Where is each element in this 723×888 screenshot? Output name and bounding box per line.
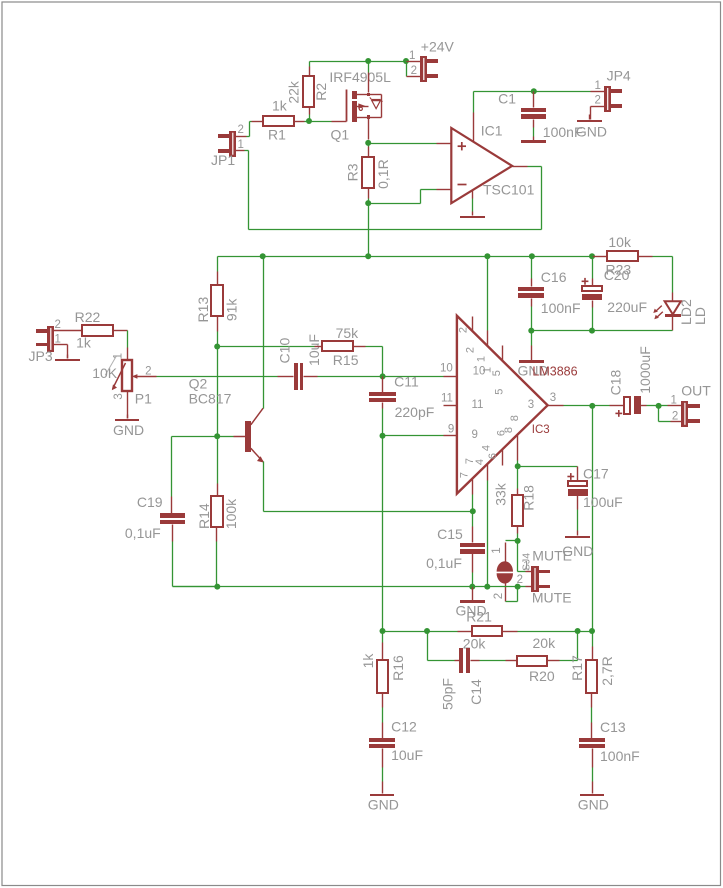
wire (310, 61, 407, 63)
svg-text:GND: GND (113, 422, 144, 438)
capacitor C18 (608, 346, 654, 417)
svg-text:2: 2 (493, 593, 505, 599)
svg-text:10uF: 10uF (306, 334, 322, 366)
op-amp IC1 (451, 123, 534, 204)
wire Q1 source (368, 119, 370, 140)
svg-text:C12: C12 (391, 719, 417, 735)
svg-text:R18: R18 (521, 485, 537, 511)
wire bottom rail (383, 631, 458, 633)
resistor R2 (286, 76, 329, 107)
node (365, 253, 371, 259)
connector MUTE (517, 547, 572, 605)
node (484, 253, 490, 259)
svg-text:5: 5 (494, 389, 506, 395)
node (528, 328, 534, 334)
resistor R23 (593, 234, 639, 278)
wire (591, 91, 605, 93)
svg-text:C10: C10 (276, 338, 292, 364)
svg-text:1000uF: 1000uF (637, 346, 653, 393)
svg-text:10K: 10K (92, 365, 118, 381)
svg-text:R16: R16 (390, 655, 406, 681)
svg-text:C13: C13 (600, 719, 626, 735)
node (589, 403, 595, 409)
wire (382, 693, 384, 739)
svg-text:2: 2 (55, 319, 61, 331)
svg-text:5: 5 (491, 370, 503, 376)
wire (309, 107, 311, 122)
svg-text:R13: R13 (195, 297, 211, 323)
svg-text:8: 8 (503, 427, 515, 433)
wire (368, 204, 370, 257)
wire (592, 749, 594, 782)
svg-text:50pF: 50pF (440, 678, 456, 710)
svg-text:100nF: 100nF (600, 748, 640, 764)
pin 2 stub (458, 317, 477, 354)
node (424, 628, 430, 634)
node (589, 628, 595, 634)
svg-text:1: 1 (475, 356, 487, 362)
wire (294, 121, 310, 123)
svg-text:2: 2 (458, 327, 470, 333)
node (260, 253, 266, 259)
pin 8 (503, 415, 521, 460)
wire (593, 405, 610, 407)
ground C1 (521, 137, 546, 144)
wire (533, 120, 535, 137)
wire wiper (157, 376, 278, 378)
wire (639, 257, 673, 293)
node (589, 328, 595, 334)
node R14 bottom (214, 584, 220, 590)
svg-text:R14: R14 (196, 503, 212, 529)
ground (456, 587, 487, 619)
wire JP4 pin2 (591, 107, 605, 120)
svg-text:3: 3 (550, 392, 556, 404)
wire JP3 pin1 (54, 345, 68, 359)
wire (506, 587, 518, 602)
svg-text:LD: LD (692, 307, 708, 325)
svg-text:3: 3 (528, 399, 534, 411)
wire (217, 437, 219, 497)
svg-text:R2: R2 (313, 83, 329, 101)
wire (471, 660, 506, 662)
wire out (564, 405, 593, 407)
wire IC1 out (513, 166, 528, 168)
wire (533, 92, 535, 108)
wire (659, 405, 682, 407)
svg-text:100uF: 100uF (583, 494, 623, 510)
wire (472, 512, 474, 543)
svg-text:C16: C16 (541, 269, 567, 285)
wire (382, 403, 384, 436)
wire to IC1 -in (369, 190, 452, 204)
wire (407, 61, 421, 63)
wire (368, 188, 370, 204)
svg-text:11: 11 (441, 392, 453, 404)
capacitor C16 (518, 269, 581, 316)
svg-text:JP3: JP3 (29, 348, 53, 364)
svg-text:C15: C15 (437, 526, 463, 542)
wire (503, 631, 593, 633)
svg-text:220uF: 220uF (607, 299, 647, 315)
pin 3 (528, 392, 564, 411)
capacitor C10 (276, 334, 322, 390)
ground C12 (368, 782, 399, 813)
node (380, 628, 386, 634)
svg-text:75k: 75k (336, 325, 360, 341)
svg-text:2: 2 (465, 347, 477, 353)
node (515, 584, 521, 590)
ground JP3 (55, 355, 80, 362)
svg-text:C11: C11 (394, 374, 419, 390)
pin 4 (474, 445, 493, 481)
svg-text:1: 1 (491, 547, 503, 553)
ground C13 (578, 782, 609, 813)
wire (672, 317, 674, 331)
svg-text:9: 9 (448, 423, 454, 435)
svg-text:MUTE: MUTE (532, 547, 572, 563)
ground P1 (113, 415, 144, 438)
svg-text:MUTE: MUTE (532, 589, 572, 605)
resistor R18 (493, 482, 537, 526)
wire (173, 525, 218, 587)
svg-text:1: 1 (409, 50, 415, 62)
wire (528, 166, 542, 168)
transistor Q2 (189, 376, 264, 463)
capacitor C1 (498, 91, 582, 141)
svg-text:2: 2 (594, 95, 600, 107)
svg-text:P1: P1 (135, 391, 152, 407)
wire main rail (218, 256, 593, 258)
svg-text:C17: C17 (583, 466, 609, 482)
node C15 bottom (469, 584, 475, 590)
resistor R3 (345, 157, 391, 189)
wire (577, 496, 579, 531)
wire to Q1 gate (310, 121, 347, 123)
wire (532, 330, 673, 332)
wire (592, 301, 594, 331)
node (589, 253, 595, 259)
pin 11 (441, 392, 483, 411)
wire OUT pin2 (659, 406, 682, 422)
svg-text:R21: R21 (466, 609, 492, 625)
wire (592, 257, 594, 286)
pin 1 (475, 331, 493, 374)
svg-text:C19: C19 (137, 494, 163, 510)
svg-text:BC817: BC817 (189, 390, 232, 406)
wire Q1 drain (368, 62, 370, 93)
svg-text:JP1: JP1 (211, 152, 235, 168)
node (380, 373, 386, 379)
wire (541, 167, 543, 230)
capacitor C19 (125, 494, 185, 541)
svg-text:0,1uF: 0,1uF (125, 525, 161, 541)
svg-text:C14: C14 (468, 679, 484, 705)
resistor R15 (315, 325, 360, 368)
resistor R16 (360, 653, 406, 693)
wire (309, 62, 311, 76)
svg-text:4: 4 (481, 445, 493, 451)
node R1 R2 gate (306, 118, 312, 124)
wire pin7 (472, 495, 474, 512)
svg-text:IC1: IC1 (481, 123, 503, 139)
svg-text:3: 3 (113, 393, 125, 399)
wire (217, 317, 219, 347)
wire (518, 586, 532, 588)
resistor R20 (506, 635, 557, 684)
svg-text:R3: R3 (345, 163, 361, 181)
wire (518, 467, 578, 481)
svg-text:9: 9 (472, 429, 478, 441)
resistor R13 (195, 285, 239, 322)
wire Q2 emitter (263, 462, 265, 512)
wire gnd net (173, 586, 518, 588)
svg-text:10k: 10k (608, 234, 632, 250)
capacitor C15 (426, 526, 485, 571)
wire (531, 257, 533, 287)
resistor R22 (54, 309, 114, 351)
resistor R14 (196, 496, 239, 529)
pin 6 stub (487, 430, 508, 466)
capacitor C17 (567, 466, 622, 510)
wire (113, 331, 128, 361)
wire (641, 405, 659, 407)
svg-text:+24V: +24V (421, 39, 455, 55)
wire (127, 392, 129, 419)
node R3 bottom (365, 200, 371, 206)
svg-text:100nF: 100nF (541, 300, 581, 316)
wire (474, 91, 534, 93)
node (529, 253, 535, 259)
wire (531, 299, 533, 331)
wire (534, 91, 591, 93)
wire (264, 511, 473, 513)
wire (172, 437, 218, 514)
wire to R15 (218, 346, 315, 348)
wire (249, 229, 542, 231)
svg-text:0,1uF: 0,1uF (426, 555, 462, 571)
svg-text:22k: 22k (286, 80, 302, 104)
svg-text:C20: C20 (604, 267, 630, 283)
solder jumper SJ4 (491, 547, 533, 601)
svg-text:1k: 1k (76, 334, 92, 350)
wire (428, 632, 460, 661)
ground IC1 (460, 191, 485, 219)
wire Q2 base (218, 436, 234, 438)
svg-text:R15: R15 (333, 352, 359, 368)
svg-text:10uF: 10uF (391, 747, 423, 763)
node (656, 403, 662, 409)
connector OUT (670, 382, 711, 427)
node at +24V branch (403, 58, 409, 64)
svg-text:220pF: 220pF (395, 404, 435, 420)
node C1 top (531, 88, 537, 94)
wire (407, 76, 421, 78)
node Q1 source (365, 140, 371, 146)
wire to pin9 (383, 435, 444, 437)
svg-text:1: 1 (523, 560, 529, 572)
node (380, 433, 386, 439)
connector JP3 (29, 319, 61, 364)
svg-text:2: 2 (672, 411, 678, 423)
svg-text:R22: R22 (75, 309, 101, 325)
node pin4 gnd (484, 584, 490, 590)
wire (517, 527, 519, 541)
svg-text:1: 1 (55, 334, 61, 346)
svg-text:1k: 1k (360, 653, 376, 669)
svg-text:91k: 91k (224, 298, 240, 322)
node at R2 top drain (365, 58, 371, 64)
resistor R1 (252, 98, 295, 143)
svg-text:1: 1 (238, 139, 244, 151)
svg-text:GND: GND (368, 797, 399, 813)
wire (304, 376, 383, 378)
wire (382, 632, 384, 660)
svg-text:IRF4905L: IRF4905L (329, 69, 391, 85)
wire (506, 541, 518, 562)
svg-text:LM3886: LM3886 (532, 364, 577, 378)
capacitor C14 (440, 648, 485, 710)
wire (353, 347, 383, 377)
wire (217, 347, 219, 437)
wire (368, 143, 370, 158)
svg-text:Q2: Q2 (189, 376, 208, 392)
wire Q2 collector (263, 257, 265, 409)
connector +24V (409, 39, 455, 83)
svg-text:1: 1 (670, 394, 676, 406)
wire IC1 vplus (473, 92, 475, 142)
node pin7 (470, 508, 476, 514)
svg-text:2: 2 (238, 124, 244, 136)
wire (406, 62, 408, 77)
wire JP1 pin1 (236, 151, 249, 230)
svg-text:10: 10 (440, 363, 453, 375)
wire (591, 693, 593, 739)
svg-text:8: 8 (509, 415, 521, 421)
svg-text:33k: 33k (493, 482, 509, 506)
wire JP1 pin2 to R1 (236, 122, 252, 137)
potentiometer P1 (92, 353, 156, 407)
svg-text:20k: 20k (533, 635, 557, 651)
svg-text:C18: C18 (608, 369, 624, 395)
connector JP1 (211, 124, 244, 168)
wire (517, 467, 519, 496)
node (575, 628, 581, 634)
node R13 bottom (214, 344, 220, 350)
svg-text:C1: C1 (498, 91, 516, 107)
svg-text:2: 2 (145, 366, 151, 378)
node pin8 (515, 463, 521, 469)
svg-text:6: 6 (487, 453, 499, 459)
capacitor C13 (579, 719, 640, 764)
wire (217, 257, 219, 286)
wire to IC1 +in (369, 143, 452, 145)
svg-text:4: 4 (474, 459, 486, 465)
pin 7 (459, 458, 476, 495)
wire (382, 749, 384, 782)
svg-text:IC3: IC3 (532, 424, 550, 436)
svg-text:Q1: Q1 (331, 127, 350, 143)
svg-text:11: 11 (472, 399, 484, 411)
capacitor C20 (582, 267, 647, 315)
wire (548, 632, 578, 661)
svg-text:R1: R1 (268, 127, 286, 143)
svg-text:2: 2 (411, 65, 417, 77)
pin 10 (440, 363, 485, 378)
pin 9 (444, 423, 478, 441)
svg-text:7: 7 (459, 472, 471, 478)
svg-text:TSC101: TSC101 (483, 181, 535, 197)
wire pin1 (487, 257, 489, 331)
svg-text:0,1R: 0,1R (375, 159, 391, 189)
node Q2 base (214, 433, 220, 439)
wire (382, 436, 384, 632)
led LD2 (653, 293, 708, 325)
capacitor C11 (369, 374, 434, 420)
wire (216, 528, 218, 587)
svg-text:R20: R20 (529, 668, 555, 684)
svg-text:OUT: OUT (681, 382, 711, 398)
op-amp IC3 (457, 316, 578, 494)
wire (382, 377, 384, 393)
svg-text:1: 1 (113, 353, 125, 359)
node R18 bottom (515, 538, 521, 544)
wire pin8 (517, 461, 519, 467)
svg-text:R17: R17 (569, 655, 585, 681)
svg-text:GND: GND (576, 124, 607, 140)
connector JP4 (594, 67, 630, 112)
wire (592, 632, 594, 660)
resistor R17 (569, 655, 615, 693)
ground C17 (562, 531, 593, 560)
svg-text:2,7R: 2,7R (599, 656, 615, 686)
wire (472, 554, 474, 587)
resistor R21 (458, 609, 503, 652)
ground JP4 (576, 115, 607, 140)
wire (531, 331, 533, 346)
wire (592, 406, 594, 632)
svg-text:GND: GND (578, 797, 609, 813)
svg-text:1k: 1k (272, 98, 288, 114)
svg-text:JP4: JP4 (607, 67, 631, 83)
wire to pin10 (383, 376, 444, 378)
pin 5 stub (491, 346, 506, 395)
wire (518, 541, 532, 572)
svg-text:1: 1 (594, 80, 600, 92)
capacitor C12 (369, 719, 423, 763)
wire pin4 (487, 481, 489, 587)
transistor Q1 (329, 69, 391, 143)
ground under C16 (518, 346, 549, 379)
svg-text:100k: 100k (223, 498, 239, 529)
